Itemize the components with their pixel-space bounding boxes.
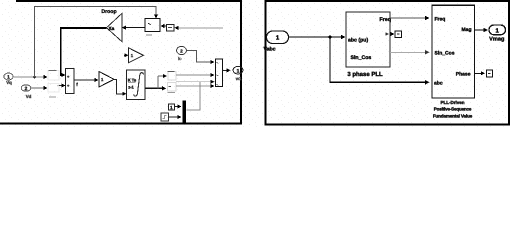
frame right screenshot top bar — [265, 0, 510, 2]
wire unit delay to top sum — [160, 24, 166, 28]
svg-text:Vq: Vq — [6, 80, 12, 85]
svg-text:abc (pu): abc (pu) — [348, 38, 368, 44]
constant 1 block — [169, 104, 175, 110]
inport 1 (left diagram) — [4, 73, 13, 85]
source k oval — [177, 46, 187, 61]
block S2 — [168, 71, 177, 80]
wire Sin_Cos PLL to big block — [390, 50, 430, 54]
wire into unit delay (dangling right) — [174, 26, 223, 30]
label under B2 — [49, 96, 56, 98]
wire wt to mini terminator — [390, 31, 401, 38]
wire droop feedback down — [61, 28, 107, 77]
integrator block — [127, 70, 146, 100]
svg-text:Freq: Freq — [435, 17, 446, 23]
mux block — [216, 59, 223, 87]
svg-text:Xa: Xa — [108, 26, 114, 32]
bus bar block — [183, 100, 186, 123]
gain Droop — [101, 9, 121, 42]
svg-text:Sin_Cos: Sin_Cos — [435, 51, 455, 57]
svg-text:K Ts: K Ts — [128, 78, 137, 83]
gain G3 (floating) — [124, 48, 143, 63]
top sum block — [145, 19, 160, 32]
svg-text:Phase: Phase — [456, 71, 471, 77]
frame right screenshot bottom bar — [265, 123, 510, 125]
wire mux to outport — [223, 68, 231, 72]
node abc branch junction — [329, 36, 332, 39]
svg-text:Droop: Droop — [101, 9, 116, 15]
frame right screenshot right edge — [508, 0, 510, 126]
wire k oval to mux — [186, 51, 214, 65]
wire inport2 to block B2 — [31, 86, 48, 90]
wire constant to bar — [174, 104, 181, 108]
svg-text:Sin_Cos: Sin_Cos — [351, 55, 372, 61]
outport Vmag — [489, 25, 506, 43]
sum block (tall) — [66, 69, 75, 94]
svg-text:Vd: Vd — [26, 94, 32, 99]
unit delay block — [167, 25, 174, 31]
wire S1 to mux — [176, 84, 215, 88]
inport Vabc (right diagram) — [263, 31, 288, 52]
wire gain2 to integrator — [114, 79, 126, 96]
block B1 — [48, 70, 59, 80]
node J1 junction dot — [33, 76, 36, 79]
wire branch up to S2 — [158, 74, 167, 88]
frame right screenshot left edge — [265, 0, 267, 126]
wire Phase to mini display — [475, 71, 485, 75]
label under S1 — [168, 92, 176, 94]
svg-text:Vabc: Vabc — [263, 46, 275, 52]
svg-text:Positive-Sequence: Positive-Sequence — [434, 107, 472, 112]
frame left screenshot bottom bar — [0, 122, 242, 124]
svg-text:PLL-Driven: PLL-Driven — [440, 100, 464, 105]
svg-text:3 phase PLL: 3 phase PLL — [347, 71, 383, 78]
block B2 — [48, 84, 62, 93]
wire bar block up to mux — [176, 80, 215, 110]
mini display block — [486, 70, 492, 77]
wire abc branch to big block — [330, 37, 430, 85]
frame left screenshot top bar — [16, 0, 241, 2]
svg-text:2: 2 — [25, 86, 28, 92]
block PLL-driven measurement — [432, 5, 475, 98]
svg-text:Fundamental Value: Fundamental Value — [433, 113, 473, 118]
svg-text:1: 1 — [237, 69, 240, 75]
wire S2 to mux — [176, 73, 215, 77]
svg-text:Mag: Mag — [462, 27, 472, 33]
svg-text:Vmag: Vmag — [489, 37, 505, 43]
wire feedforward port1 to top sum — [35, 7, 159, 78]
wire Freq PLL to big block — [390, 16, 430, 20]
wire source to bar — [168, 115, 181, 119]
wire top sum to droop gain — [122, 26, 145, 30]
wire B2 to sum — [59, 83, 65, 87]
block S1 — [168, 83, 177, 92]
wire integrator out — [145, 86, 166, 90]
source block signal — [161, 113, 168, 121]
svg-text:w1: w1 — [235, 76, 242, 81]
PLL wt port mark — [386, 32, 389, 36]
inport 2 (left diagram) — [21, 85, 31, 99]
svg-text:z-1: z-1 — [128, 85, 134, 90]
block 3-phase PLL — [346, 12, 390, 67]
svg-text:abc: abc — [434, 80, 443, 86]
wire sum to gain2 — [74, 78, 99, 82]
wire Vabc to PLL — [289, 35, 346, 40]
label under top sum — [146, 34, 152, 36]
svg-text:Freq: Freq — [379, 17, 391, 23]
outport 1 (left diagram) — [233, 66, 243, 80]
svg-text:k-: k- — [178, 56, 182, 61]
wire inport1 to node — [13, 75, 48, 79]
frame left screenshot right edge — [240, 0, 242, 125]
gain G2 — [99, 72, 114, 88]
wire Mag to outport — [475, 28, 489, 32]
